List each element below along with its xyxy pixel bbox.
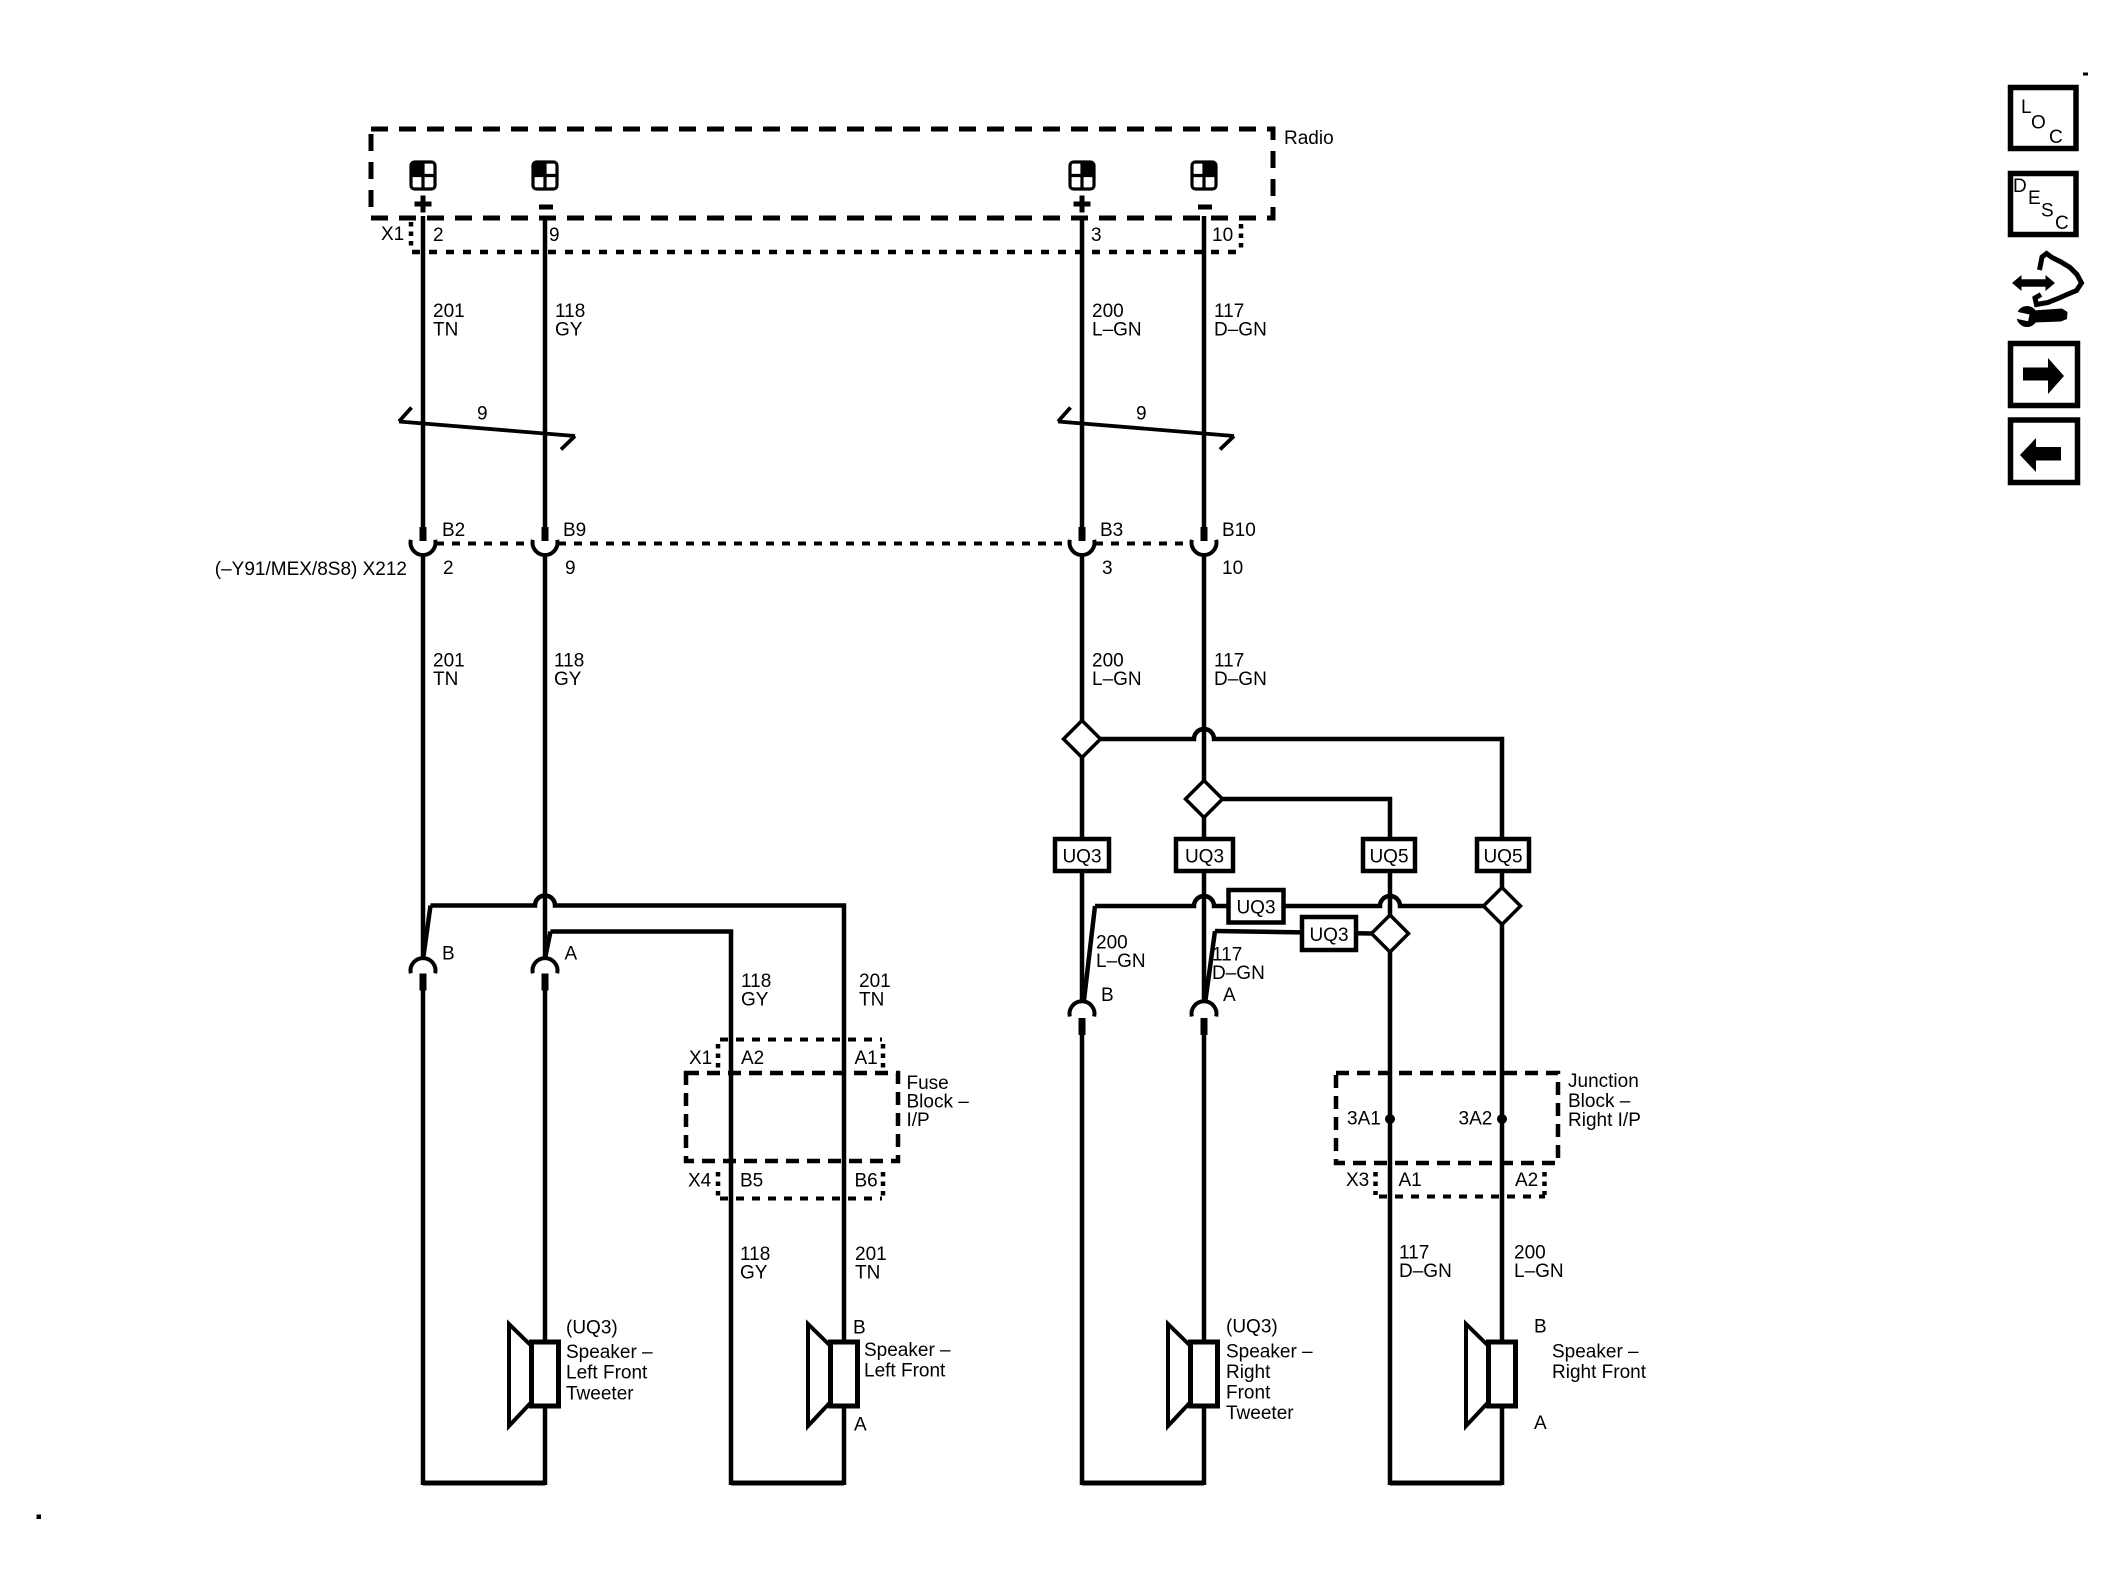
net 3A1 junction dot [1385, 1114, 1395, 1124]
wire 200 L-GN upper segment [1080, 216, 1085, 528]
svg-text:B2: B2 [442, 520, 465, 541]
svg-text:B3: B3 [1100, 520, 1123, 541]
svg-text:A: A [565, 944, 578, 965]
speaker left front tweeter symbol [509, 1324, 559, 1426]
svg-text:D: D [2013, 176, 2027, 197]
wire 201 TN to left tweeter loop [421, 991, 426, 1486]
svg-text:L–GN: L–GN [1514, 1261, 1564, 1282]
svg-text:A: A [1223, 985, 1236, 1006]
svg-text:A: A [854, 1415, 867, 1436]
svg-text:L: L [2021, 97, 2032, 118]
splice S5 diamond on x1390 [1372, 915, 1409, 952]
repair icon: wrench [2017, 306, 2038, 327]
wire 200 L-GN to right tweeter loop [1080, 1035, 1085, 1485]
wire 200 L-GN below splice [1080, 758, 1085, 840]
svg-text:Front: Front [1226, 1383, 1271, 1404]
svg-text:Speaker –: Speaker – [864, 1340, 951, 1361]
splice branch from 117 D-GN: horizontal, corner down [1223, 799, 1391, 839]
branch wire x1390: UQ5 down to splice S5 [1388, 871, 1393, 915]
svg-text:2: 2 [443, 558, 454, 579]
speaker right front symbol [1466, 1324, 1516, 1426]
svg-text:L–GN: L–GN [1096, 951, 1146, 972]
svg-text:GY: GY [554, 669, 582, 690]
svg-text:9: 9 [1136, 404, 1147, 425]
svg-text:3A1: 3A1 [1347, 1109, 1381, 1130]
svg-text:Block –: Block – [1568, 1091, 1631, 1112]
svg-text:UQ3: UQ3 [1236, 898, 1275, 919]
svg-text:B6: B6 [855, 1171, 878, 1192]
LOC nav box [2011, 88, 2077, 149]
wire 117 D-GN upper segment [1202, 216, 1207, 528]
svg-text:Left Front: Left Front [566, 1363, 648, 1384]
speaker right front tweeter labels [1226, 1317, 1313, 1425]
svg-text:Right: Right [1226, 1362, 1271, 1383]
inline connector X212 dashed tie line [436, 542, 1190, 546]
svg-text:3: 3 [1091, 225, 1102, 246]
svg-text:A1: A1 [1399, 1170, 1422, 1191]
radio component dashed box [371, 129, 1273, 218]
svg-text:L–GN: L–GN [1092, 669, 1142, 690]
fuse block connector X1 row dotted line [720, 1038, 882, 1042]
connector X1 left separator [409, 222, 414, 248]
svg-text:Right I/P: Right I/P [1568, 1110, 1641, 1131]
radio pin square 2 (-) [533, 162, 557, 210]
speaker left front tweeter bottom stub and loop rail [543, 1406, 548, 1485]
speaker left front labels [853, 1318, 951, 1436]
branch wire x1502: UQ5 to splice S4 [1500, 871, 1505, 888]
svg-text:C: C [2055, 213, 2069, 234]
speaker left front bottom stub and loop rail [842, 1406, 847, 1485]
wire 118 GY to left tweeter top [543, 991, 548, 1345]
svg-text:UQ5: UQ5 [1483, 847, 1522, 868]
fuse block X4 separators [716, 1172, 721, 1196]
option box UQ5 (branch wire x1502) [1477, 839, 1529, 871]
speaker right front bottom stub and loop rail [1500, 1406, 1505, 1485]
branch wire x1502 through junction block to speaker top [1500, 925, 1505, 1345]
diagonal tap down to connector B (right) [1084, 906, 1095, 1000]
svg-text:D–GN: D–GN [1212, 963, 1265, 984]
svg-text:X4: X4 [688, 1171, 712, 1192]
wire 117 D-GN below splice [1202, 818, 1207, 840]
wire 118 GY middle segment [543, 555, 548, 957]
tweeter feed line (right): hops over 117 and x1390 wires, UQ3 box, into splice S4 [1095, 896, 1484, 906]
svg-text:UQ5: UQ5 [1369, 847, 1408, 868]
svg-text:9: 9 [549, 225, 560, 246]
svg-text:3: 3 [1102, 558, 1113, 579]
svg-text:2: 2 [433, 225, 444, 246]
svg-text:GY: GY [740, 1263, 768, 1284]
svg-text:I/P: I/P [907, 1110, 930, 1131]
svg-text:E: E [2028, 188, 2041, 209]
svg-text:D–GN: D–GN [1399, 1261, 1452, 1282]
net 3A2 junction dot [1497, 1114, 1507, 1124]
junction block dashed box [1336, 1073, 1558, 1163]
svg-text:UQ3: UQ3 [1185, 847, 1224, 868]
junction block X3 separators [1373, 1172, 1378, 1195]
svg-text:C: C [2049, 127, 2063, 148]
connector X212 terminal B2 [411, 527, 436, 555]
svg-text:UQ3: UQ3 [1062, 847, 1101, 868]
wire 200 L-GN below UQ3 down to connector B [1080, 871, 1085, 1001]
tweeter return line (right): from corner to UQ3 box to splice S5 [1215, 931, 1372, 934]
speaker right front tweeter bottom stub and loop rail [1202, 1406, 1207, 1485]
svg-text:UQ3: UQ3 [1309, 925, 1348, 946]
radio pin square 1 (+) [411, 162, 435, 213]
svg-text:Tweeter: Tweeter [1226, 1403, 1294, 1424]
option box UQ3 (wire 117) [1176, 839, 1233, 871]
svg-text:B5: B5 [740, 1171, 763, 1192]
radio pin square 4 (-) [1192, 162, 1216, 210]
svg-text:(UQ3): (UQ3) [566, 1318, 618, 1339]
connector A left (cap arc + pin) [533, 958, 558, 990]
option box UQ3 (tweeter feed) [1229, 890, 1284, 923]
splice S1 diamond on 200 L-GN [1064, 721, 1101, 758]
svg-text:A2: A2 [1515, 1170, 1538, 1191]
wire 201 TN middle segment [421, 555, 426, 957]
svg-text:O: O [2031, 113, 2046, 134]
connector X212 terminal B9 [533, 527, 558, 555]
fuse block X1 separators [716, 1044, 721, 1070]
connector B left (cap arc + pin) [411, 958, 436, 990]
repair icon: outline contour [2035, 254, 2082, 305]
svg-text:B: B [1101, 985, 1114, 1006]
back arrow nav box [2011, 420, 2078, 483]
stray mark top right [2083, 73, 2088, 76]
svg-text:B: B [1534, 1317, 1547, 1338]
left branch: return horizontal corner down to 118 GY [551, 932, 732, 1486]
svg-text:GY: GY [555, 320, 583, 341]
svg-text:10: 10 [1222, 558, 1243, 579]
svg-text:Right Front: Right Front [1552, 1362, 1647, 1383]
splice S4 diamond on x1502 [1484, 888, 1521, 925]
left harness slash (9 wires) [399, 408, 575, 450]
svg-text:9: 9 [477, 404, 488, 425]
svg-text:A: A [1534, 1413, 1547, 1434]
branch wire x1390 through junction block down to loop [1388, 952, 1393, 1485]
svg-text:Speaker –: Speaker – [1226, 1342, 1313, 1363]
svg-text:D–GN: D–GN [1214, 669, 1267, 690]
svg-text:X1: X1 [381, 224, 404, 245]
svg-text:(–Y91/MEX/8S8) X212: (–Y91/MEX/8S8) X212 [215, 559, 407, 580]
right harness slash (9 wires) [1058, 408, 1234, 450]
svg-text:B10: B10 [1222, 520, 1256, 541]
diagonal tap down to connector B (left) [424, 906, 431, 957]
option box UQ3 (tweeter return) [1302, 917, 1356, 950]
connector A right (cap arc + pin) [1192, 1001, 1217, 1035]
option box UQ5 (branch wire x1390) [1363, 839, 1415, 871]
svg-text:B: B [442, 944, 455, 965]
connector B right (cap arc + pin) [1070, 1001, 1095, 1035]
svg-text:Speaker –: Speaker – [566, 1342, 653, 1363]
svg-text:TN: TN [433, 320, 458, 341]
svg-text:B: B [853, 1318, 866, 1339]
svg-text:Junction: Junction [1568, 1071, 1639, 1092]
left branch: tweeter feed horizontal with hop over 118 wire, corner down to 201 TN [431, 896, 845, 1345]
speaker right front tweeter symbol [1168, 1324, 1218, 1426]
svg-text:S: S [2041, 201, 2054, 222]
stray mark bottom left [37, 1515, 42, 1520]
svg-text:A2: A2 [741, 1048, 764, 1069]
svg-text:3A2: 3A2 [1459, 1109, 1493, 1130]
repair icon: double arrow [2012, 275, 2055, 291]
svg-text:Left Front: Left Front [864, 1361, 946, 1382]
junction block X3 row dotted line [1379, 1195, 1545, 1199]
svg-text:L–GN: L–GN [1092, 320, 1142, 341]
connector X1 right separator [1239, 224, 1244, 248]
wire 118 GY upper segment [543, 216, 548, 528]
svg-text:A1: A1 [855, 1048, 878, 1069]
DESC nav box [2011, 174, 2077, 235]
option box UQ3 (wire 200) [1055, 839, 1109, 871]
wire 117 D-GN below UQ3 down to connector A [1202, 871, 1207, 1001]
svg-text:D–GN: D–GN [1214, 320, 1267, 341]
speaker left front symbol [808, 1324, 858, 1426]
svg-text:TN: TN [859, 990, 884, 1011]
svg-text:Speaker –: Speaker – [1552, 1342, 1639, 1363]
wire 200 L-GN middle segment [1080, 555, 1085, 721]
speaker left front tweeter labels [566, 1318, 653, 1405]
svg-text:B9: B9 [563, 520, 586, 541]
svg-text:TN: TN [433, 669, 458, 690]
svg-text:Radio: Radio [1284, 128, 1334, 149]
svg-text:Tweeter: Tweeter [566, 1384, 634, 1405]
svg-text:9: 9 [565, 558, 576, 579]
speaker right front labels [1534, 1317, 1647, 1435]
fuse block dashed box [686, 1073, 898, 1161]
wire 117 D-GN middle segment [1202, 555, 1207, 781]
wire 201 TN upper segment [421, 216, 426, 528]
fuse block X4 row dotted line [720, 1197, 882, 1201]
svg-text:X3: X3 [1346, 1170, 1369, 1191]
svg-text:(UQ3): (UQ3) [1226, 1317, 1278, 1338]
splice S2 diamond on 117 D-GN [1186, 781, 1223, 818]
diagonal tap down to connector A (right) [1206, 931, 1216, 1000]
connector X212 terminal B10 [1192, 527, 1217, 555]
forward arrow nav box [2011, 344, 2078, 406]
svg-text:X1: X1 [689, 1048, 712, 1069]
svg-text:TN: TN [855, 1263, 880, 1284]
splice branch from 200 L-GN: horizontal with hop over 117 wire, corner down [1101, 729, 1503, 839]
connector X212 terminal B3 [1070, 527, 1095, 555]
radio pin square 3 (+) [1070, 162, 1094, 213]
diagonal tap down to connector A (left) [546, 932, 551, 957]
connector X1 row (radio) dotted line [412, 250, 1240, 255]
wire 117 D-GN to right tweeter top [1202, 1035, 1207, 1344]
svg-text:10: 10 [1212, 225, 1233, 246]
svg-text:GY: GY [741, 990, 769, 1011]
